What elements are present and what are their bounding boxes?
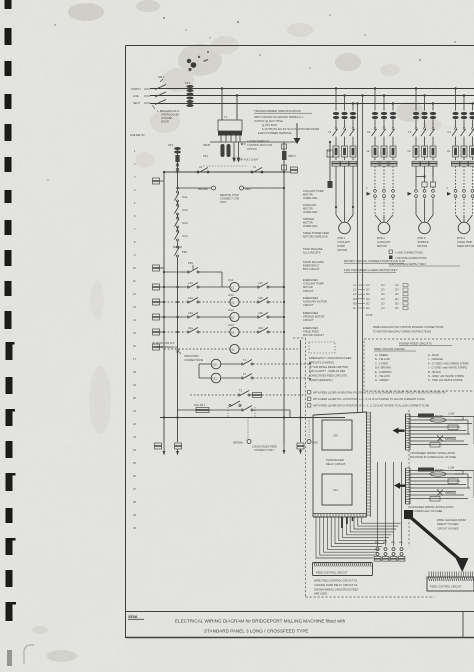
contact overload O/L2	[175, 201, 189, 218]
contact overload O/L3	[175, 214, 189, 231]
motor MTR1 coolant pump circle	[339, 222, 351, 234]
label low volt light	[234, 158, 259, 162]
ink marks below transducer box	[342, 517, 353, 528]
arrow control rail end	[176, 449, 179, 456]
wire plug feeders	[378, 462, 402, 546]
rung relay C31	[199, 372, 310, 383]
fuse secondary FS4	[221, 144, 225, 157]
note emergency feed circuits	[309, 356, 351, 382]
arrow thick to feed control	[409, 516, 469, 572]
line ref no column	[130, 134, 145, 530]
rotary switch table	[353, 283, 408, 317]
label SW1	[158, 75, 165, 79]
motor MTR2 auxiliary circle	[378, 222, 390, 234]
label transducer relay circuit	[326, 458, 346, 466]
fuse FS1 line 1	[186, 85, 193, 92]
transformer spec text	[254, 109, 319, 135]
wire bottom rung	[160, 416, 345, 418]
contact start PB1	[163, 261, 222, 287]
terminal left rail bottom	[155, 443, 162, 449]
control rail top fuse SP1	[168, 143, 181, 172]
label MTR2 auxiliary	[377, 236, 391, 248]
wire L3 bus	[150, 103, 474, 105]
rung solenoid SOL	[164, 342, 335, 354]
arrow right rail end	[283, 442, 286, 455]
label longfeed wiring caption	[410, 505, 454, 513]
arrow left rail end	[163, 442, 166, 456]
terminal control rail bottom	[175, 443, 182, 449]
transformer T1	[218, 115, 242, 136]
input filter component	[282, 151, 287, 160]
title block	[126, 612, 474, 638]
motor branch MTR1 coolant pump	[328, 87, 358, 222]
box power feed wire colour coding	[364, 339, 474, 391]
wire dashed interlock	[203, 165, 247, 167]
node BROWN	[198, 186, 216, 191]
rung contactor C2	[163, 293, 285, 307]
rung relay C30	[199, 358, 310, 369]
wire ladder top rung	[164, 171, 284, 173]
arrow aux rail end	[299, 449, 302, 455]
wire feeder to transducer A	[356, 102, 358, 412]
note feed lever positions	[308, 391, 446, 408]
wire L2 bus	[150, 95, 474, 97]
node junction square	[404, 510, 413, 519]
note power feed	[152, 341, 178, 349]
note loose wires	[241, 139, 272, 151]
legend connections	[389, 250, 460, 266]
wire right spur	[327, 141, 333, 188]
wire aux rail	[300, 340, 302, 442]
wire control rail	[176, 171, 178, 188]
label MTR4 table feed	[457, 236, 474, 248]
wire left rail	[163, 171, 165, 442]
label fuses	[185, 81, 190, 85]
main isolator switch SW1	[155, 79, 166, 105]
box feed control circuit	[313, 563, 373, 576]
rung feed interlock	[190, 389, 306, 398]
motor branch MTR2 auxiliary	[366, 87, 397, 222]
earth terminal	[294, 123, 301, 144]
wire feeder to transducer B	[361, 94, 363, 412]
contact overload O/L4	[175, 227, 189, 244]
transformer secondary bus	[210, 136, 297, 143]
rung contactor C3	[163, 308, 285, 322]
label crossfeed wiring caption	[410, 451, 456, 459]
box feed control circuit right	[427, 577, 474, 591]
arrow to longfeed strip	[394, 483, 406, 489]
terminal strip crossfeed wiring	[406, 412, 474, 451]
node long cross feed connections	[233, 418, 318, 453]
label TB1	[203, 154, 209, 158]
rung contactor C1	[163, 278, 285, 292]
note motor winding	[373, 325, 444, 334]
wire L1 bus	[150, 88, 474, 90]
terminal ladder top right	[283, 167, 298, 173]
label SPUR	[203, 143, 210, 147]
contact overload O/L1	[175, 188, 189, 205]
wire colour list left	[375, 353, 392, 382]
wire colour list right	[428, 353, 469, 382]
contact stop PB2	[173, 244, 187, 442]
connector plugs L3y L1y	[374, 540, 405, 561]
wire transformer primary 1	[221, 87, 223, 120]
relay C30 box	[322, 420, 352, 450]
label MTR1 coolant pump	[338, 236, 351, 252]
motor branch MTR3 spindle	[408, 87, 438, 222]
note spraymist	[177, 350, 203, 362]
label MTR3 spindle	[418, 236, 429, 248]
wire right rail	[283, 172, 285, 442]
rung contactor C4	[163, 323, 285, 337]
rung solenoid SOL1	[178, 403, 291, 418]
wire transformer primary 2	[236, 94, 238, 120]
wire secondary drop arrows	[233, 142, 240, 162]
contact C1 top rung	[251, 165, 263, 173]
terminals frame left column	[153, 178, 165, 350]
relay C31 box	[322, 474, 352, 505]
label rotary switch connections	[344, 259, 405, 272]
note wire changes	[437, 518, 466, 530]
ink blot top	[187, 51, 209, 71]
fuse FS3 line 3	[186, 100, 193, 107]
note remote stop	[220, 193, 239, 204]
wire INPUT rail	[282, 142, 297, 172]
motor MTR3 spindle circle	[419, 222, 431, 234]
binding marks column	[5, 0, 17, 666]
arrow to crossfeed strip	[393, 428, 405, 434]
wire remote stop rung	[176, 187, 285, 189]
note mechanically interlocked	[152, 105, 180, 124]
label circuit descriptions column	[303, 189, 329, 337]
wire harness staircase	[316, 517, 401, 558]
contact feed PB3	[228, 401, 255, 418]
wire relay feeder	[199, 361, 311, 381]
box transducer relay circuit	[313, 412, 371, 517]
terminal strip longfeed wiring	[406, 466, 474, 505]
terminal comb above feed control	[429, 572, 473, 577]
node RED	[240, 186, 251, 191]
fuse FS2 line 2	[186, 93, 193, 100]
contact C4 top rung	[197, 165, 209, 173]
fuse rect on input rail	[282, 144, 287, 149]
note wire feed control	[314, 579, 358, 596]
terminal aux rail	[297, 443, 304, 449]
motor MTR4 table feed circle	[458, 222, 470, 234]
supply labels	[131, 87, 150, 105]
motor branch MTR4 table feed	[447, 87, 474, 222]
fuse secondary FS5	[227, 144, 231, 157]
wire dashed enclosure feed circuits	[293, 338, 434, 597]
frame border	[126, 46, 474, 639]
